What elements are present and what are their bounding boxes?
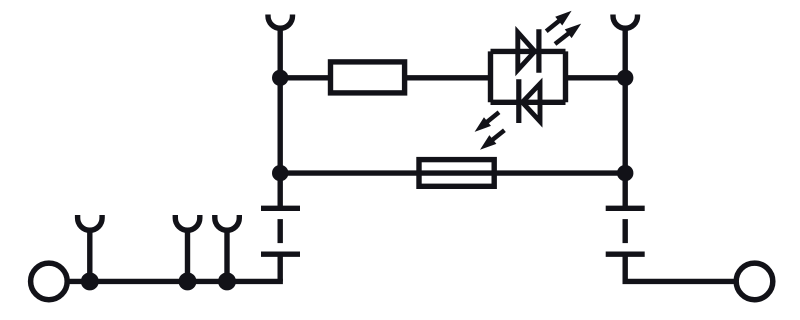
LED D1 emission arrow 1 — [546, 11, 571, 31]
LED D2 triangle (pointing left) — [522, 84, 540, 122]
clamp contact top-left — [268, 15, 293, 29]
wire: middle rail (through fuse) — [280, 170, 625, 175]
clamp contact bottom 2 — [175, 215, 200, 230]
disconnect left: middle stub — [278, 219, 283, 243]
node: bottom clamp 2 junction — [179, 272, 197, 290]
disconnect left: upper bar — [261, 206, 300, 211]
wire: upper rail, node to resistor — [280, 75, 331, 80]
clamp contact bottom 1 — [78, 215, 103, 230]
wire: top-right vertical stem — [623, 27, 628, 208]
terminal circle bottom-right — [736, 263, 773, 300]
LED D1 cathode bar — [536, 29, 541, 72]
LED block top branch wire — [491, 49, 566, 54]
disconnect right: lower bar — [606, 251, 645, 256]
disconnect left: lower bar — [261, 251, 300, 256]
wire: stem of bottom clamp 2 — [185, 229, 190, 281]
wire: stem of bottom clamp 3 — [224, 229, 229, 281]
node: junction middle-right — [617, 165, 633, 181]
fuse F1 — [419, 160, 494, 187]
wire: bottom-right rail — [623, 279, 737, 284]
node: junction middle-left — [272, 165, 288, 181]
LED D2 emission arrow 2 — [480, 130, 504, 150]
LED D2 emission arrow 1 — [475, 112, 499, 132]
LED D1 emission arrow 2 — [555, 24, 581, 44]
LED block bottom branch wire — [491, 100, 566, 105]
wire: right disconnect stem down — [623, 254, 628, 281]
disconnect right: upper bar — [606, 206, 645, 211]
wire: left disconnect stem down — [278, 254, 283, 281]
terminal circle bottom-left — [31, 263, 68, 300]
node: junction top-left — [272, 70, 288, 86]
wire: LED block to top-right node — [566, 75, 626, 80]
node: bottom clamp 1 junction — [81, 272, 99, 290]
clamp contact top-right — [613, 15, 638, 29]
node: bottom clamp 3 junction — [218, 272, 236, 290]
wire: resistor to LED block — [405, 75, 491, 80]
resistor R1 — [331, 62, 405, 93]
LED block left vertical — [488, 51, 493, 102]
disconnect right: middle stub — [623, 219, 628, 243]
wire: bottom-left rail — [68, 279, 283, 284]
node: junction top-right — [617, 70, 633, 86]
wire: stem of bottom clamp 1 — [87, 229, 92, 281]
clamp contact bottom 3 — [215, 215, 240, 230]
LED D1 triangle (anode, pointing right) — [518, 32, 535, 70]
LED D2 cathode bar — [516, 79, 521, 123]
LED block right vertical — [563, 51, 568, 102]
wire: top-left vertical stem — [278, 27, 283, 208]
